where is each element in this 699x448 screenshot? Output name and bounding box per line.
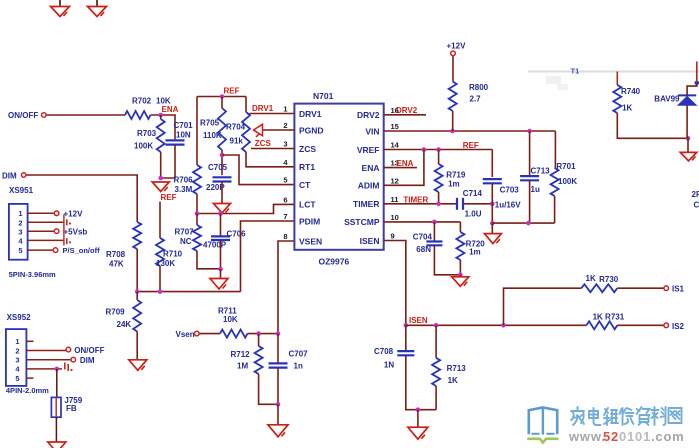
connector XS952 type label <box>6 386 49 395</box>
svg-text:IS1: IS1 <box>672 285 685 294</box>
svg-text:7: 7 <box>283 212 287 221</box>
svg-text:R740: R740 <box>621 87 641 96</box>
svg-text:C706: C706 <box>227 230 247 239</box>
wire <box>617 113 688 138</box>
node junction <box>158 176 163 181</box>
junction marks <box>67 219 71 244</box>
resistor R740 <box>613 85 621 113</box>
svg-text:24K: 24K <box>117 320 132 329</box>
resistor R709 <box>133 300 141 332</box>
wire <box>222 155 294 185</box>
svg-text:2P: 2P <box>692 190 699 199</box>
svg-text:SSTCMP: SSTCMP <box>344 217 380 227</box>
wire <box>459 275 461 277</box>
wire pin16 DRV2 <box>384 114 426 116</box>
label R701 100K <box>556 162 577 186</box>
wire <box>160 152 162 178</box>
resistor R702 <box>125 111 151 119</box>
svg-text:3: 3 <box>283 140 287 149</box>
junction marks <box>65 363 73 372</box>
node terminal +5Vsb <box>54 229 59 234</box>
ground <box>129 360 147 371</box>
wire <box>405 325 407 351</box>
label 1K R731 <box>593 312 625 321</box>
wire <box>686 105 688 138</box>
node terminal DIM <box>71 357 76 362</box>
capacitor C707 <box>269 363 288 367</box>
node junction <box>686 136 691 141</box>
svg-text:P/S_on/off: P/S_on/off <box>63 246 101 255</box>
svg-text:3: 3 <box>18 228 22 237</box>
wire pin12 ADIM <box>384 150 424 186</box>
connector XS951 <box>9 204 28 260</box>
label 1K R730 <box>586 274 619 284</box>
svg-text:C701: C701 <box>174 121 194 130</box>
ref symbol <box>152 182 169 192</box>
wire pin3 <box>28 230 54 232</box>
label C706 4700P <box>203 230 246 250</box>
connector XS951 label <box>9 186 34 195</box>
wire <box>435 386 437 410</box>
diode BAV99 <box>678 95 696 105</box>
svg-text:CT: CT <box>299 180 311 190</box>
label C703 1u/16V <box>495 185 521 209</box>
node ENA <box>158 113 163 118</box>
capacitor C705 <box>213 177 232 181</box>
wire <box>137 291 240 293</box>
svg-text:DIM: DIM <box>80 356 95 365</box>
svg-text:+12V: +12V <box>447 41 467 50</box>
svg-text:1M: 1M <box>237 362 248 371</box>
wire <box>220 240 222 269</box>
wire pin1 <box>28 212 54 214</box>
wire pin3 ZCS <box>251 148 294 150</box>
net P/S_on/off label <box>63 246 101 255</box>
ground <box>484 234 501 244</box>
resistor R703 <box>157 119 165 152</box>
svg-text:4PIN-2.0mm: 4PIN-2.0mm <box>6 386 49 395</box>
net ENA label <box>162 105 179 114</box>
svg-text:1K: 1K <box>448 376 458 385</box>
label R713 1K <box>447 364 467 385</box>
label J759 FB <box>64 396 82 413</box>
node junction <box>490 221 495 226</box>
svg-text:1m: 1m <box>469 248 481 257</box>
svg-text:IS2: IS2 <box>672 322 685 331</box>
svg-text:12: 12 <box>391 176 399 185</box>
resistor R720 <box>456 232 464 260</box>
svg-text:110K: 110K <box>203 131 222 140</box>
wire <box>221 97 223 109</box>
svg-text:1: 1 <box>283 105 287 114</box>
label C701 10N <box>174 121 194 140</box>
svg-text:C714: C714 <box>463 189 483 198</box>
net +12V label <box>447 41 467 50</box>
svg-text:DIM: DIM <box>2 172 17 181</box>
wire <box>197 96 246 98</box>
svg-text:1K: 1K <box>622 104 632 113</box>
wire <box>452 111 454 131</box>
wire bus <box>63 215 65 246</box>
svg-text:100K: 100K <box>558 177 577 186</box>
svg-text:R709: R709 <box>106 308 126 317</box>
net +5Vsb label <box>64 228 88 237</box>
node junction <box>436 147 441 152</box>
ground <box>51 0 70 17</box>
node DIM terminal <box>21 173 26 178</box>
svg-text:52: 52 <box>603 429 619 444</box>
wire <box>617 324 663 326</box>
svg-text:REF: REF <box>161 193 177 202</box>
resistor R731 <box>587 321 618 329</box>
capacitor C713 <box>520 176 539 180</box>
svg-text:N701: N701 <box>313 91 334 101</box>
wire <box>136 292 138 300</box>
svg-text:.com: .com <box>651 429 685 444</box>
node junction <box>276 331 281 336</box>
svg-text:1n: 1n <box>294 362 303 371</box>
svg-text:130K: 130K <box>156 259 175 268</box>
svg-text:Vsen: Vsen <box>176 330 195 339</box>
wire <box>151 115 176 139</box>
label R711 10K <box>218 307 238 325</box>
svg-text:REF: REF <box>224 87 240 96</box>
wire ISEN <box>406 324 587 326</box>
svg-text:PDIM: PDIM <box>299 216 320 226</box>
node junction <box>527 129 532 134</box>
wire pin2 <box>26 349 65 352</box>
svg-text:47K: 47K <box>109 260 124 269</box>
wire <box>687 138 689 152</box>
svg-text:10K: 10K <box>223 315 238 324</box>
node junction <box>135 289 140 294</box>
resistor R719 <box>435 164 443 192</box>
svg-text:R704: R704 <box>226 123 246 132</box>
capacitor C701 <box>166 140 185 144</box>
wire <box>160 115 162 119</box>
svg-text:VREF: VREF <box>357 145 380 155</box>
wire pin11 TIMER <box>384 203 456 205</box>
node junction <box>434 323 439 328</box>
wire <box>438 192 440 204</box>
label C713 1u <box>531 167 551 194</box>
ground <box>680 152 697 161</box>
svg-text:R701: R701 <box>556 162 576 171</box>
wire <box>434 246 460 275</box>
wire <box>161 145 175 178</box>
resistor R730 <box>581 284 617 292</box>
node terminal ON/OFF <box>66 347 71 352</box>
node junction <box>220 153 225 158</box>
svg-text:4700P: 4700P <box>203 241 227 250</box>
svg-text:C704: C704 <box>413 232 433 241</box>
svg-text:R800: R800 <box>469 83 489 92</box>
svg-text:R703: R703 <box>137 129 157 138</box>
wire <box>221 150 223 175</box>
label R704 91k <box>226 123 246 146</box>
wire <box>529 180 531 223</box>
net IS1 label <box>672 285 685 294</box>
svg-text:14: 14 <box>391 141 400 150</box>
wire <box>245 97 247 113</box>
wire <box>278 241 294 334</box>
label R707 NC <box>175 228 195 247</box>
svg-text:1N: 1N <box>384 361 394 370</box>
ground <box>268 425 288 437</box>
svg-text:PGND: PGND <box>299 125 324 135</box>
label R719 1m <box>446 171 466 189</box>
svg-text:TIMER: TIMER <box>353 199 379 209</box>
svg-text:100K: 100K <box>134 142 153 151</box>
wire <box>491 150 493 178</box>
svg-text:TIMER: TIMER <box>403 195 428 204</box>
capacitor C714 <box>457 198 463 210</box>
capacitor C706 <box>211 236 230 240</box>
wire <box>554 196 556 223</box>
svg-text:ADIM: ADIM <box>358 181 380 191</box>
svg-text:C: C <box>694 201 699 210</box>
svg-text:ISEN: ISEN <box>360 236 380 246</box>
svg-text:C703: C703 <box>500 185 520 194</box>
ground <box>452 277 469 287</box>
wire <box>220 214 222 236</box>
svg-text:6: 6 <box>283 195 287 204</box>
watermark site name <box>571 407 682 425</box>
svg-text:DRV2: DRV2 <box>396 106 418 115</box>
svg-text:ENA: ENA <box>162 105 179 114</box>
node terminal IS1 <box>664 286 669 291</box>
wire <box>136 249 138 292</box>
svg-text:R730: R730 <box>599 275 619 284</box>
svg-text:1.0U: 1.0U <box>465 210 482 219</box>
label C705 220P <box>206 163 228 192</box>
wire <box>435 325 437 358</box>
svg-text:15: 15 <box>391 122 399 131</box>
svg-text:NC: NC <box>180 237 192 246</box>
node DIM label <box>2 172 17 181</box>
svg-text:REF: REF <box>463 141 479 150</box>
svg-text:DRV1: DRV1 <box>252 104 274 113</box>
svg-text:1K: 1K <box>586 274 596 283</box>
capacitor C704 <box>426 242 442 246</box>
node terminal IS2 <box>664 323 669 328</box>
node junction <box>218 211 223 216</box>
net REF label <box>463 141 479 150</box>
svg-text:R708: R708 <box>106 250 126 259</box>
arrow ZCS <box>254 124 263 137</box>
wire <box>464 203 493 205</box>
wire pin4 <box>26 368 62 370</box>
wire <box>259 374 278 404</box>
svg-text:C707: C707 <box>289 350 309 359</box>
svg-text:1: 1 <box>15 337 19 346</box>
label R712 1M <box>231 350 251 371</box>
svg-text:1u: 1u <box>531 185 540 194</box>
wire pin1 DRV1 <box>249 113 294 115</box>
wire pin10 SSTCMP <box>384 221 461 223</box>
wire <box>459 260 461 275</box>
wire pin5 <box>26 377 33 379</box>
wire <box>136 332 138 360</box>
svg-text:XS952: XS952 <box>7 313 32 322</box>
node junction <box>404 323 409 328</box>
svg-text:1m: 1m <box>448 179 460 188</box>
wire pin13 ENA <box>384 167 417 169</box>
resistor R701 <box>551 168 559 196</box>
svg-text:R713: R713 <box>447 364 467 373</box>
ic pin numbers <box>283 105 399 242</box>
wire <box>492 222 554 224</box>
wire <box>616 72 618 86</box>
capacitor C708 <box>397 351 414 355</box>
net ZCS label <box>255 139 272 148</box>
wire pin14 VREF <box>384 149 493 151</box>
label C708 1N <box>374 347 394 370</box>
node junction <box>256 331 261 336</box>
svg-text:ZCS: ZCS <box>255 139 272 148</box>
svg-text:ON/OFF: ON/OFF <box>8 111 38 120</box>
connector XS951 type label <box>9 270 56 279</box>
wire <box>617 287 663 289</box>
node junction <box>526 221 531 226</box>
wire <box>241 221 295 292</box>
wire <box>220 269 222 279</box>
ic N701 title <box>313 91 334 101</box>
wire <box>459 222 461 232</box>
wire <box>246 152 294 167</box>
net ENA label <box>397 159 414 168</box>
resistor R800 <box>449 82 457 112</box>
ground <box>88 0 107 17</box>
wire <box>27 175 138 222</box>
svg-text:10: 10 <box>391 213 399 222</box>
op-amp U1 N701 OZ9976 <box>294 104 383 250</box>
svg-text:3.3M: 3.3M <box>175 185 193 194</box>
resistor R713 <box>432 358 440 386</box>
svg-text:9: 9 <box>391 232 395 241</box>
net ISEN label <box>409 316 428 325</box>
svg-text:11: 11 <box>391 195 399 204</box>
resistor R707 <box>193 225 201 251</box>
svg-text:2: 2 <box>18 218 22 227</box>
label R720 1m <box>466 239 486 256</box>
ic OZ9976 label <box>319 257 350 267</box>
svg-text:10N: 10N <box>176 131 191 140</box>
svg-text:BAV99: BAV99 <box>654 95 680 104</box>
watermark url <box>568 429 685 444</box>
resistor R706 <box>193 165 201 194</box>
wire pin15 VIN <box>384 130 556 132</box>
svg-text:+12V: +12V <box>64 210 84 219</box>
svg-text:5: 5 <box>18 246 22 255</box>
node terminal P/S_on/off <box>53 248 58 253</box>
net DRV1 label <box>252 104 274 113</box>
svg-text:2: 2 <box>15 346 19 355</box>
svg-text:T1: T1 <box>571 67 580 76</box>
wire pin3 <box>26 359 70 361</box>
net REF label <box>224 87 240 96</box>
net DIM label <box>80 356 95 365</box>
wire <box>433 222 435 241</box>
label R740 1K <box>621 87 641 113</box>
node junction <box>158 289 163 294</box>
net REF label <box>161 193 177 202</box>
resistor R708 <box>133 222 141 249</box>
wire <box>438 150 440 165</box>
svg-text:RT1: RT1 <box>299 162 315 172</box>
wire faint <box>528 72 699 91</box>
node junction <box>195 211 200 216</box>
net IS2 label <box>672 322 685 331</box>
label C714 1.0U <box>463 189 483 219</box>
ground <box>408 427 428 439</box>
wire <box>491 183 493 223</box>
svg-text:C708: C708 <box>374 347 394 356</box>
svg-text:+5Vsb: +5Vsb <box>64 228 88 237</box>
svg-text:R719: R719 <box>446 171 466 180</box>
wire <box>277 334 279 405</box>
wire <box>197 204 294 213</box>
wire pin2 PGND <box>263 129 295 131</box>
wire <box>696 62 698 83</box>
wire <box>56 369 58 398</box>
wire <box>47 114 125 116</box>
label R709 24K <box>106 308 132 330</box>
svg-text:C713: C713 <box>531 167 551 176</box>
wire <box>406 355 436 409</box>
wire <box>491 223 493 234</box>
connector XS952 <box>6 329 27 386</box>
svg-text:1K R731: 1K R731 <box>593 312 625 321</box>
node terminal +12V <box>54 211 59 216</box>
wire pin5 <box>28 249 53 251</box>
resistor R710 <box>156 238 164 266</box>
node junction <box>490 202 495 207</box>
label C704 68N <box>413 232 433 254</box>
wire <box>248 333 279 335</box>
wire <box>504 288 582 325</box>
svg-text:5PIN-3.96mm: 5PIN-3.96mm <box>9 270 56 279</box>
node ON/OFF terminal <box>42 113 47 118</box>
node junction <box>450 129 455 134</box>
label T1 <box>571 67 580 76</box>
node junction <box>695 81 699 86</box>
label R800 2.7 <box>469 83 489 103</box>
svg-text:91k: 91k <box>230 137 244 146</box>
node junction <box>276 402 281 407</box>
ground <box>210 279 228 290</box>
svg-text:www.: www. <box>568 429 606 444</box>
svg-text:VIN: VIN <box>365 126 379 136</box>
label R708 47K <box>106 250 126 269</box>
svg-text:R707: R707 <box>175 228 195 237</box>
svg-text:8: 8 <box>283 232 287 241</box>
svg-text:ZCS: ZCS <box>299 144 316 154</box>
svg-text:LCT: LCT <box>299 200 316 210</box>
svg-text:ISEN: ISEN <box>409 316 428 325</box>
label R710 130K <box>156 250 183 269</box>
label 2P partial <box>692 190 699 210</box>
svg-text:FB: FB <box>66 404 77 413</box>
svg-text:5: 5 <box>283 176 287 185</box>
svg-text:0101: 0101 <box>619 429 651 444</box>
wire <box>417 410 419 428</box>
node junction <box>218 267 223 272</box>
ground <box>48 442 66 448</box>
svg-text:XS951: XS951 <box>9 186 34 195</box>
svg-text:R705: R705 <box>200 119 220 128</box>
wire <box>196 194 198 214</box>
